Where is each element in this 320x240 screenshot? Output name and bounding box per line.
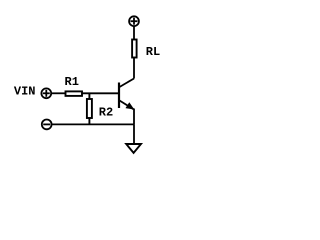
wire R2 to bottom rail: [88, 118, 90, 124]
resistor R2: [87, 99, 92, 118]
svg-text:R2: R2: [99, 105, 113, 119]
transistor Q1 collector lead: [120, 79, 135, 88]
source positive terminal: [41, 88, 51, 98]
svg-text:VIN: VIN: [14, 85, 36, 99]
resistor RL: [132, 40, 137, 58]
wire RL to collector: [133, 58, 135, 79]
resistor R1: [66, 91, 83, 96]
wire emitter to rail: [133, 109, 135, 125]
wire R1 to base node: [83, 92, 119, 94]
node base junction stub to R2: [88, 93, 90, 99]
transistor Q1 emitter arrow: [126, 103, 133, 109]
svg-text:R1: R1: [65, 75, 79, 89]
wire supply to RL: [133, 26, 135, 39]
ground: [126, 144, 141, 153]
wire source+ to R1: [52, 92, 66, 94]
transistor Q1 emitter lead: [120, 101, 134, 110]
wire bottom rail: [52, 123, 134, 125]
supply positive terminal: [129, 16, 139, 26]
svg-text:RL: RL: [146, 45, 160, 59]
transistor Q1 base bar: [118, 83, 120, 109]
source negative terminal: [42, 120, 52, 130]
wire rail to ground: [133, 124, 135, 144]
